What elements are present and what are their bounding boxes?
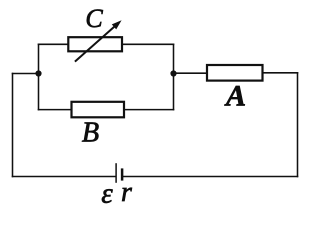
wire: bottom branch left lead to B	[39, 109, 72, 111]
wire: bottom branch right lead from B	[124, 109, 174, 111]
wire: bottom right segment from battery	[124, 176, 298, 178]
wire: resistor A to right corner	[263, 72, 298, 74]
svg-text:r: r	[121, 177, 132, 208]
rheostat arrow through C	[75, 20, 122, 61]
svg-text:A: A	[224, 80, 246, 113]
wire: top branch left lead to C	[39, 43, 69, 45]
svg-text:ε: ε	[101, 177, 113, 209]
node P (left junction dot)	[35, 70, 41, 76]
battery cell: long thin plate	[115, 163, 117, 183]
wire: left outer vertical	[12, 74, 14, 177]
wire: right outer vertical	[297, 73, 299, 177]
wire: node Q to resistor A	[174, 72, 208, 74]
svg-text:C: C	[85, 4, 103, 33]
wire: left stub from outer loop to node P	[13, 73, 39, 75]
battery cell: short thick plate	[121, 168, 124, 180]
resistor C (variable) body	[68, 37, 122, 51]
resistor B body	[72, 102, 125, 118]
svg-text:B: B	[82, 117, 99, 148]
wire: right parallel-branch vertical	[173, 44, 175, 109]
wire: bottom left segment to battery	[13, 176, 116, 178]
node Q (right junction dot)	[170, 70, 176, 76]
resistor A body	[207, 65, 263, 81]
wire: left parallel-branch vertical	[38, 44, 40, 109]
wire: top branch right lead from C	[122, 43, 174, 45]
